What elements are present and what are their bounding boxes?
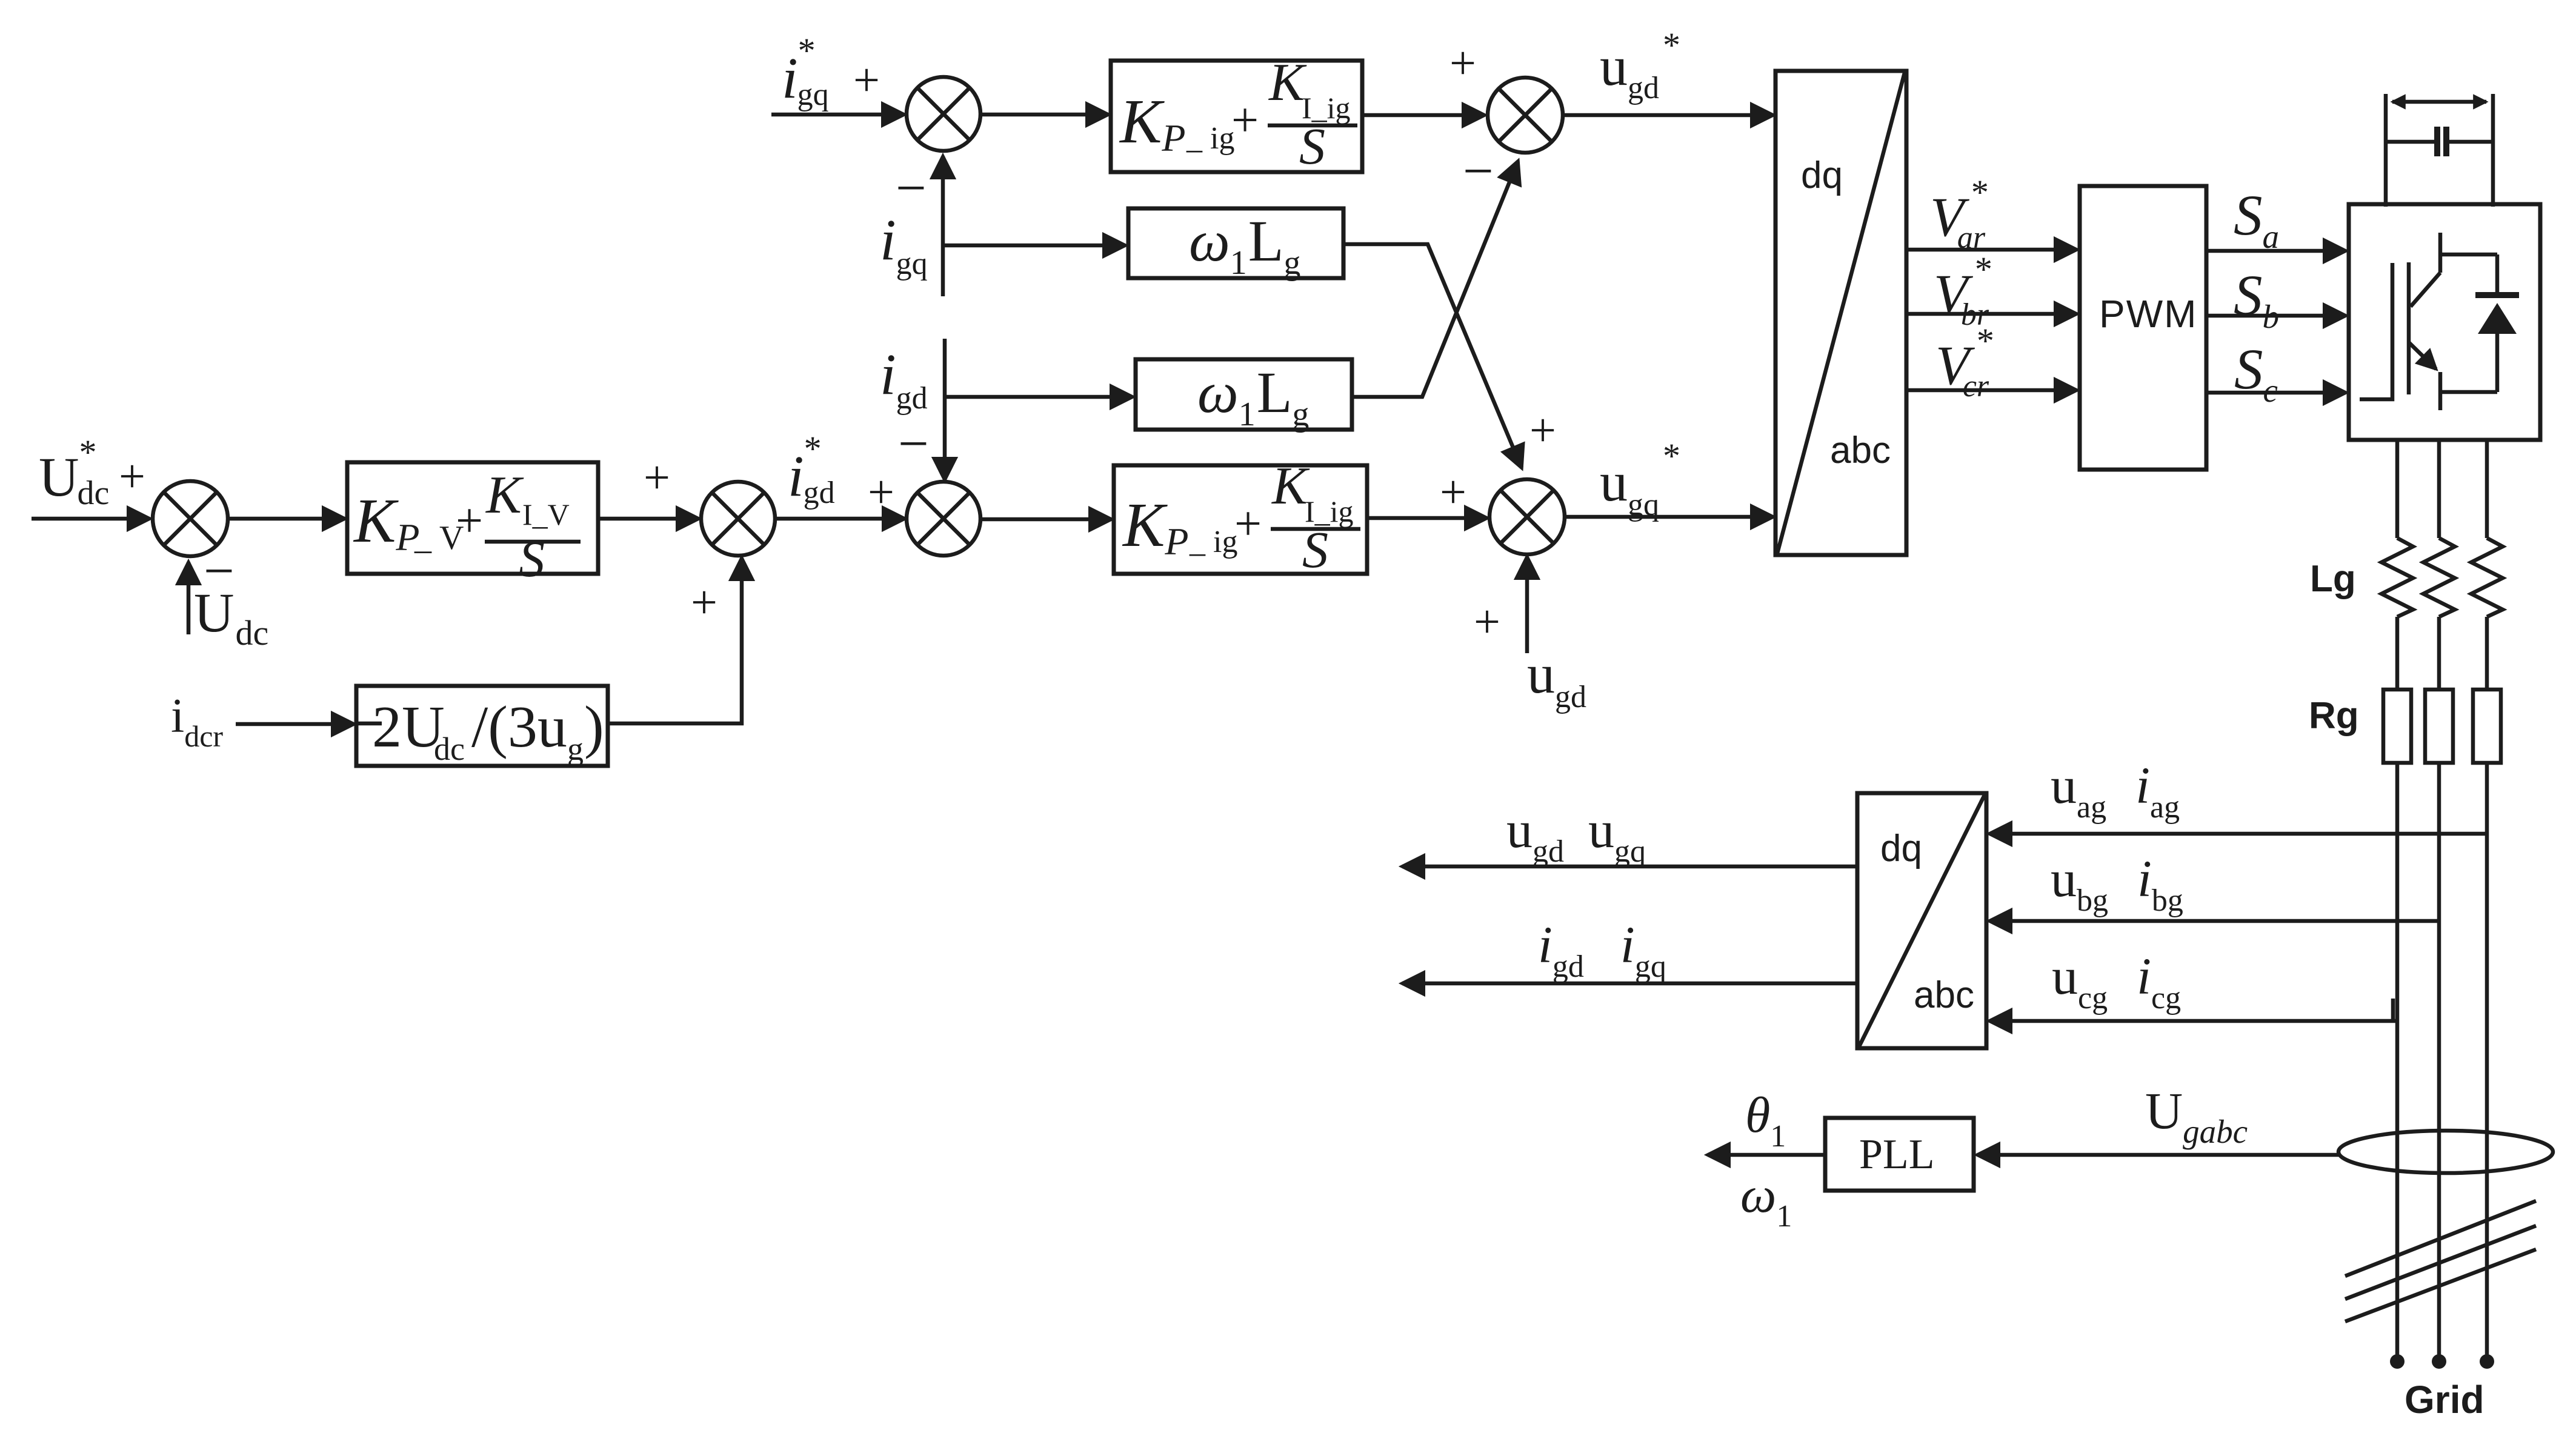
phase a vertical line xyxy=(2395,440,2400,1357)
svg-text:PLL: PLL xyxy=(1859,1131,1934,1178)
resistor Rg phase b xyxy=(2425,690,2453,763)
svg-text:S: S xyxy=(1302,520,1328,579)
svg-text:_ ig: _ ig xyxy=(1186,121,1234,156)
wire S6 to dq-abc block xyxy=(1565,515,1773,519)
wire omega1Lg lower output cross feed up to S5 xyxy=(1352,161,1518,397)
block dq to abc transform xyxy=(1776,71,1906,555)
IGBT gate lead xyxy=(2360,263,2392,399)
svg-text:KP: KP xyxy=(1122,490,1188,563)
wire igq branch to omega1Lg upper block xyxy=(943,244,1125,248)
wire tap phase c to measurement block xyxy=(1989,832,2487,836)
resistor Rg phase a xyxy=(2383,690,2411,763)
svg-text:i*gd: i*gd xyxy=(788,429,835,510)
DC link capacitor right stub xyxy=(2491,94,2495,207)
svg-text:+: + xyxy=(1449,36,1476,89)
svg-text:+: + xyxy=(1529,404,1556,456)
wire PI voltage to summing junction S2 xyxy=(598,517,699,521)
wire V*ar dq to PWM xyxy=(1906,248,2077,252)
svg-text:+: + xyxy=(1234,497,1262,551)
svg-text:abc: abc xyxy=(1830,430,1891,471)
svg-text:Ugabc: Ugabc xyxy=(2145,1082,2248,1150)
svg-text:Rg: Rg xyxy=(2309,695,2359,737)
svg-text:ugq*: ugq* xyxy=(1600,436,1680,522)
svg-text:S: S xyxy=(1299,117,1325,175)
svg-text:i*gq: i*gq xyxy=(782,31,829,112)
block 2Udc/(3ug) xyxy=(356,686,608,767)
block omega1Lg upper xyxy=(1128,208,1343,282)
wire Sa PWM to converter xyxy=(2206,249,2346,253)
svg-text:Lg: Lg xyxy=(2310,558,2356,600)
junction tick on phase a tap xyxy=(2391,999,2395,1022)
wire PI upper to summing junction S5 xyxy=(1362,113,1485,118)
DC link double-headed arrow xyxy=(2392,100,2486,104)
DC link capacitor left stub xyxy=(2384,94,2388,207)
resistor Rg phase c xyxy=(2473,690,2501,763)
svg-text:+: + xyxy=(1474,595,1500,648)
block PI voltage regulator KP_V + KI_V/S xyxy=(347,462,598,588)
svg-text:U*dc: U*dc xyxy=(39,433,109,512)
diode D1 xyxy=(2475,254,2519,392)
wire omega1Lg upper output cross feed down to S6 xyxy=(1343,244,1522,468)
three-phase slash mark 3 xyxy=(2345,1249,2536,1321)
converter bottom branch wire xyxy=(2440,390,2497,394)
svg-text:+: + xyxy=(1231,94,1259,147)
wire Ugabc into PLL xyxy=(1977,1153,2338,1157)
svg-text:+: + xyxy=(868,465,894,518)
wire V*cr dq to PWM xyxy=(1906,388,2077,393)
terminal dot phase c xyxy=(2480,1354,2494,1369)
svg-text:ucgicg: ucgicg xyxy=(2052,947,2181,1016)
svg-text:−: − xyxy=(898,414,929,474)
block PI current regulator upper KP_ig + KI_ig/S xyxy=(1111,53,1362,175)
svg-text:dq: dq xyxy=(1880,828,1922,869)
svg-text:+: + xyxy=(456,494,483,548)
inductor Lg phase c xyxy=(2471,538,2503,617)
wire 2Udc block to S2 from below xyxy=(608,558,742,723)
svg-text:ugdugq: ugdugq xyxy=(1506,800,1646,869)
wire igq vertical feedback into S4 xyxy=(941,156,945,296)
wire U*dc input xyxy=(32,517,150,521)
inductor Lg phase a xyxy=(2381,538,2413,617)
svg-text:dq: dq xyxy=(1801,155,1843,196)
inductor Lg phase b xyxy=(2423,538,2455,617)
three-phase slash mark 2 xyxy=(2345,1226,2536,1299)
phase c vertical line xyxy=(2485,440,2489,1357)
svg-text:V *ar: V *ar xyxy=(1930,173,1989,255)
svg-text:uagiag: uagiag xyxy=(2051,756,2180,825)
IGBT collector xyxy=(2411,233,2440,307)
svg-text:g: g xyxy=(567,731,584,767)
block converter box xyxy=(2349,204,2540,440)
svg-text:ubgibg: ubgibg xyxy=(2051,849,2183,918)
wire measurement outputs ugd ugq xyxy=(1402,865,1857,869)
svg-text:ω1: ω1 xyxy=(1740,1167,1792,1234)
svg-text:igdigq: igdigq xyxy=(1538,916,1666,984)
summing junction S6 xyxy=(1489,479,1565,554)
wire V*br dq to PWM xyxy=(1906,312,2077,316)
wire PI lower to summing junction S6 xyxy=(1367,516,1487,520)
svg-text:+: + xyxy=(644,451,670,504)
svg-text:ugd*: ugd* xyxy=(1600,25,1680,105)
svg-text:+: + xyxy=(119,450,145,502)
wire S5 to dq-abc block xyxy=(1563,113,1773,118)
block PI current regulator lower KP_ig + KI_ig/S xyxy=(1114,457,1367,579)
wire S2 to summing junction S3 xyxy=(775,517,905,521)
svg-text:/(3u: /(3u xyxy=(471,694,567,760)
wire measurement outputs igd igq xyxy=(1402,982,1857,986)
summing junction S1 xyxy=(153,481,228,556)
svg-text:Udc: Udc xyxy=(194,582,268,653)
svg-text:): ) xyxy=(584,694,604,760)
svg-text:dc: dc xyxy=(434,731,465,767)
terminal dot phase b xyxy=(2432,1354,2446,1369)
summing junction S4 xyxy=(907,77,980,151)
capacitor C plates wiring xyxy=(2386,127,2493,156)
svg-text:S: S xyxy=(519,530,545,588)
phase b vertical line xyxy=(2437,440,2441,1357)
svg-text:−: − xyxy=(896,158,927,218)
wire tap phase b to measurement block xyxy=(1989,919,2439,923)
svg-text:igd: igd xyxy=(880,342,928,416)
svg-text:abc: abc xyxy=(1914,974,1974,1016)
svg-text:KP: KP xyxy=(353,486,419,559)
wire S3 to PI current block lower xyxy=(980,517,1111,522)
converter top branch wire xyxy=(2440,253,2497,257)
svg-text:Sb: Sb xyxy=(2234,263,2279,335)
svg-text:idcr: idcr xyxy=(171,690,223,753)
wire tap phase a to measurement block xyxy=(1989,1019,2397,1023)
svg-text:igq: igq xyxy=(880,207,928,281)
wire i*gq input xyxy=(771,113,904,117)
IGBT body bar xyxy=(2407,262,2411,394)
svg-text:V *cr: V *cr xyxy=(1935,321,1994,404)
svg-text:V *br: V *br xyxy=(1934,250,1992,332)
three-phase slash mark 1 xyxy=(2345,1201,2536,1276)
wire S1 to PI voltage block xyxy=(228,517,345,521)
svg-text:+: + xyxy=(1440,465,1466,518)
svg-text:PWM: PWM xyxy=(2099,292,2197,336)
svg-text:_ ig: _ ig xyxy=(1189,525,1237,559)
svg-text:KP: KP xyxy=(1119,87,1185,159)
svg-text:ω1Lg: ω1Lg xyxy=(1197,360,1309,433)
svg-text:Sc: Sc xyxy=(2234,337,2278,409)
wire S4 to PI current block upper xyxy=(980,113,1108,117)
svg-text:θ1: θ1 xyxy=(1745,1087,1786,1154)
IGBT emitter with arrow xyxy=(2409,342,2440,410)
wire PLL output theta1 omega1 xyxy=(1708,1153,1825,1157)
summing junction S3 xyxy=(907,482,980,556)
svg-text:Sa: Sa xyxy=(2234,183,2279,255)
svg-text:+: + xyxy=(691,576,717,628)
svg-text:−: − xyxy=(1463,141,1494,201)
svg-text:K: K xyxy=(485,466,524,525)
block omega1Lg lower xyxy=(1136,359,1352,433)
block measurement abc to dq transform xyxy=(1857,793,1986,1048)
block PLL xyxy=(1825,1118,1974,1191)
svg-text:ugd: ugd xyxy=(1527,643,1586,714)
wire ugd input into S6 from below xyxy=(1525,557,1529,653)
wire idcr input xyxy=(236,722,354,726)
wire Udc feedback arrow xyxy=(187,562,191,634)
svg-text:+: + xyxy=(853,53,880,106)
svg-text:I_V: I_V xyxy=(522,497,570,531)
wire igd vertical into S3 xyxy=(943,339,947,480)
wire Sc PWM to converter xyxy=(2206,391,2346,395)
summing junction S5 xyxy=(1488,78,1563,153)
block PWM xyxy=(2080,186,2206,470)
svg-text:Grid: Grid xyxy=(2405,1378,2484,1421)
terminal dot phase a xyxy=(2390,1354,2405,1369)
summing junction S2 xyxy=(701,482,775,556)
wire igd branch to omega1Lg lower block xyxy=(945,395,1133,399)
wire Sb PWM to converter xyxy=(2206,314,2346,318)
current transformer ellipse xyxy=(2338,1131,2553,1173)
svg-text:ω1Lg: ω1Lg xyxy=(1189,208,1300,282)
